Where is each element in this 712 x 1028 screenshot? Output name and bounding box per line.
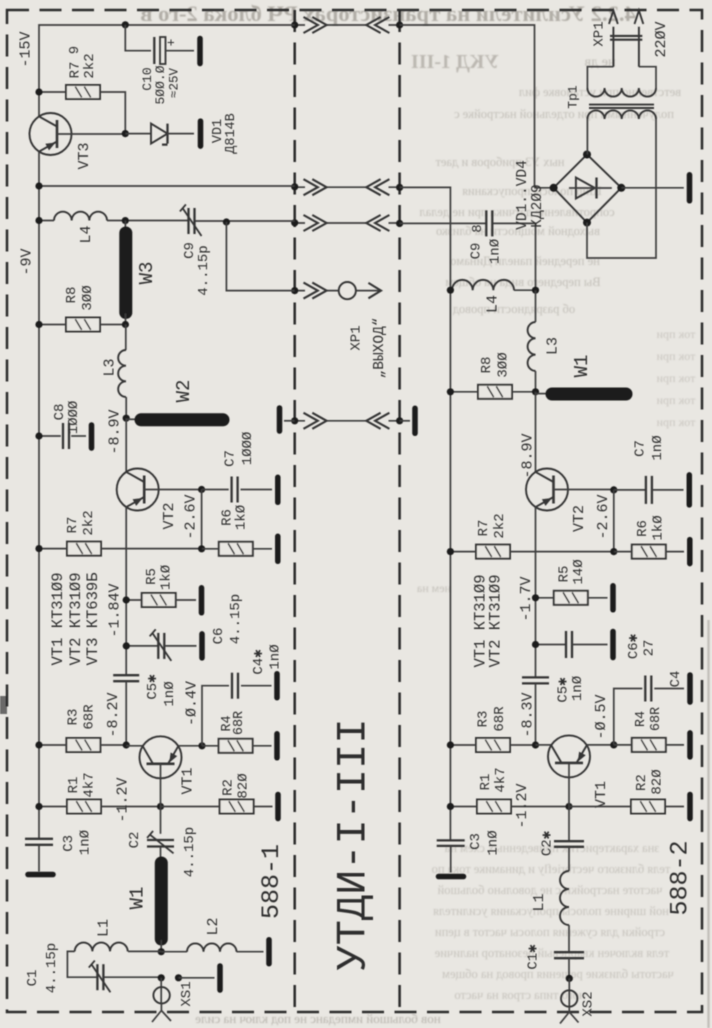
svg-text:R6: R6 bbox=[635, 520, 651, 537]
ground bar R5 bbox=[199, 588, 205, 613]
ground bar C4 (588-2) bbox=[687, 675, 693, 702]
svg-text:не дв: не дв bbox=[584, 55, 615, 70]
junction border dots y=223 bbox=[291, 219, 298, 226]
junction dot VT2 base node bbox=[198, 486, 205, 493]
junction dot R3 rail bbox=[35, 741, 42, 748]
svg-text:C2✱: C2✱ bbox=[540, 830, 556, 856]
connector XP1 plug bars bbox=[610, 36, 642, 40]
wire secondary left to bridge top bbox=[586, 119, 588, 155]
junction dot VT2 base node (588-2) bbox=[610, 486, 617, 493]
svg-text:1nØ: 1nØ bbox=[488, 239, 504, 264]
svg-text:1nØ: 1nØ bbox=[268, 644, 284, 669]
svg-text:C1: C1 bbox=[25, 970, 41, 987]
svg-text:≈25V: ≈25V bbox=[168, 68, 182, 99]
connection arrow left bbox=[366, 413, 389, 429]
resistor R7 mid 2k2 bbox=[67, 542, 101, 556]
svg-text:W2: W2 bbox=[173, 380, 195, 403]
resistor R6 1k0 (588-2) bbox=[632, 545, 666, 559]
wire VT2 collector bbox=[125, 418, 127, 472]
capacitor C3 1n0 bbox=[25, 839, 53, 845]
svg-text:588-2: 588-2 bbox=[666, 840, 695, 915]
capacitor C9 trimmer bbox=[189, 208, 195, 234]
transistor VT3 bbox=[30, 113, 72, 155]
wire -15V feed from bridge bbox=[400, 25, 554, 188]
junction dot VT1 base node (588-2) bbox=[565, 803, 572, 810]
svg-text:4..15p: 4..15p bbox=[196, 245, 212, 295]
capacitor C6 trimmer bbox=[126, 645, 158, 647]
svg-text:УКД 1-ІІІ: УКД 1-ІІІ bbox=[411, 51, 499, 73]
ground bar L2 bbox=[266, 940, 272, 964]
inductor L1 bbox=[75, 943, 128, 952]
svg-text:C7: C7 bbox=[633, 440, 649, 457]
capacitor C5* series (588-2) bbox=[522, 677, 549, 683]
resistor R2 820 (588-2) bbox=[631, 800, 665, 814]
transistor VT1 (588-2) bbox=[548, 735, 590, 777]
svg-text:1kØ: 1kØ bbox=[234, 505, 250, 530]
junction dot R7 rail bbox=[35, 545, 42, 552]
capacitor C2* series (588-2) bbox=[554, 841, 584, 847]
coil W1 coupling bar bbox=[155, 863, 168, 939]
net output line into 588-2 C9 bbox=[400, 223, 536, 290]
wire VT2 emitter rail (588-2) bbox=[535, 507, 537, 677]
wire corridor link bbox=[295, 186, 400, 188]
wire VT2 base to R6 bbox=[201, 490, 203, 549]
svg-text:XP1: XP1 bbox=[591, 21, 607, 46]
svg-text:-2.6V: -2.6V bbox=[595, 494, 612, 539]
svg-text:588-1: 588-1 bbox=[257, 844, 286, 919]
svg-text:68R: 68R bbox=[649, 707, 664, 731]
net tank line y=220.5 with L4 bbox=[39, 220, 295, 223]
svg-text:VT2: VT2 bbox=[161, 502, 178, 529]
resistor R3 68R bbox=[66, 738, 100, 752]
resistor R4 68R (588-2) bbox=[632, 738, 666, 752]
svg-text:5ØØ.Ø: 5ØØ.Ø bbox=[153, 65, 168, 104]
connection arrow right bbox=[304, 179, 327, 195]
svg-text:W1: W1 bbox=[571, 355, 593, 378]
svg-text:-8.9V: -8.9V bbox=[107, 409, 124, 454]
resistor R2 820 bbox=[220, 800, 254, 814]
svg-text:82Ø: 82Ø bbox=[650, 769, 666, 794]
connection arrow left bbox=[366, 17, 389, 33]
wire -9V rail 588-2 bbox=[400, 187, 451, 840]
svg-text:стройки для сужения полосы час: стройки для сужения полосы частот в цепи bbox=[435, 925, 665, 939]
svg-text:УТДИ-І-ІІІ: УТДИ-І-ІІІ bbox=[330, 718, 378, 970]
svg-text:VT1 КТ31Ø9: VT1 КТ31Ø9 bbox=[49, 572, 67, 665]
svg-text:1ØØØ: 1ØØØ bbox=[66, 401, 82, 435]
connector XS1 antenna socket bbox=[160, 978, 162, 1004]
ground bar XS1 shield bbox=[217, 966, 223, 990]
wire corridor link bbox=[295, 222, 400, 224]
svg-text:R7: R7 bbox=[65, 517, 81, 534]
wire VT1 base down bbox=[160, 764, 162, 834]
net input tank L1 C1 bbox=[67, 951, 161, 977]
svg-text:теля близкого честbriefly и ди: теля близкого честbriefly и динамике ток… bbox=[432, 862, 671, 876]
svg-text:2k2: 2k2 bbox=[492, 513, 508, 538]
svg-text:4k7: 4k7 bbox=[82, 772, 98, 797]
junction dot R3 / VT1 collector bbox=[123, 741, 130, 748]
wire -9V rail (VT3 emitter down) bbox=[38, 152, 40, 839]
junction dot R8 rail (588-2) bbox=[447, 388, 454, 395]
ground bar C7 (588-2) bbox=[687, 475, 693, 505]
junction border dots y=25 bbox=[291, 21, 298, 28]
svg-text:C6: C6 bbox=[211, 628, 227, 645]
svg-text:L3: L3 bbox=[545, 337, 562, 355]
svg-text:ток при: ток при bbox=[656, 349, 695, 363]
svg-text:3ØØ: 3ØØ bbox=[496, 352, 512, 377]
svg-text:ных УЗ приборов и дает: ных УЗ приборов и дает bbox=[435, 155, 565, 169]
junction dot VT1 emitter node bbox=[198, 742, 205, 749]
wire XS1 shield to ground bbox=[179, 977, 215, 979]
junction dot W3 bottom bbox=[122, 321, 129, 328]
svg-text:-15V: -15V bbox=[18, 31, 35, 67]
capacitor C4* branch bbox=[202, 686, 229, 746]
svg-text:R1: R1 bbox=[66, 777, 82, 794]
resistor R8 300 bbox=[66, 318, 100, 332]
svg-text:об разрядности провод: об разрядности провод bbox=[452, 302, 575, 316]
resistor R7 upper 2k2 bbox=[66, 85, 100, 99]
wire VT2 base to R6 (588-2) bbox=[613, 490, 615, 552]
connection arrow right bbox=[304, 17, 327, 33]
junction dot R5 node (588-2) bbox=[532, 594, 539, 601]
capacitor C5* series bbox=[113, 675, 139, 681]
svg-text:C5✱: C5✱ bbox=[145, 674, 161, 700]
svg-text:1nØ: 1nØ bbox=[570, 676, 586, 701]
svg-text:теля включен кварцевый резонат: теля включен кварцевый резонатор наличие bbox=[434, 946, 669, 960]
resistor R6 1k0 bbox=[219, 542, 253, 556]
inductor L1 (588-2) bbox=[560, 871, 569, 925]
junction dot VT3 base / VD1 bbox=[122, 130, 129, 137]
ground bar R6 bbox=[275, 536, 281, 561]
svg-text:VT1: VT1 bbox=[180, 767, 197, 794]
capacitor C6* 27 (588-2) bbox=[536, 644, 567, 646]
ground bar R2 bbox=[275, 795, 281, 819]
junction dot R6 node (588-2) bbox=[610, 548, 617, 555]
ground bar R4 (588-2) bbox=[687, 733, 693, 757]
svg-text:частоты близкие решения провод: частоты близкие решения провод на общем bbox=[442, 967, 674, 981]
svg-text:ной ширине полосы пропускания: ной ширине полосы пропускания усилителя bbox=[433, 904, 669, 918]
svg-text:4..15p: 4..15p bbox=[44, 943, 60, 993]
wire VT2 collector (588-2) bbox=[535, 392, 537, 472]
svg-text:68R: 68R bbox=[82, 704, 98, 730]
svg-text:2k2: 2k2 bbox=[82, 53, 98, 78]
svg-text:C4✱: C4✱ bbox=[251, 649, 267, 675]
junction dot VT1 base node bbox=[157, 803, 164, 810]
junction dot R8 rail bbox=[35, 321, 42, 328]
svg-text:-1.2V: -1.2V bbox=[115, 777, 132, 822]
coil W1 coupling bar (588-2) bbox=[536, 393, 552, 395]
inductor L4 bbox=[54, 212, 107, 221]
wire primary to plug bbox=[587, 67, 656, 88]
svg-text:ток при: ток при bbox=[656, 371, 695, 385]
svg-text:Тр1: Тр1 bbox=[566, 85, 581, 109]
transistor VT1 bbox=[140, 736, 182, 778]
frame border corridor left (588-1 right edge) bbox=[293, 10, 296, 1012]
wire VT1 collector bbox=[126, 745, 142, 747]
svg-text:VT2 КТ31Ø9: VT2 КТ31Ø9 bbox=[67, 572, 85, 665]
svg-text:-8.2V: -8.2V bbox=[105, 692, 122, 737]
svg-text:R5: R5 bbox=[556, 566, 572, 583]
transistor VT2 bbox=[117, 469, 159, 511]
junction dot R1 rail bbox=[35, 803, 42, 810]
svg-text:C1✱: C1✱ bbox=[526, 944, 542, 970]
svg-text:9: 9 bbox=[67, 46, 83, 54]
svg-text:1ØØØ: 1ØØØ bbox=[240, 432, 256, 466]
junction dot L4 left rail bbox=[447, 287, 454, 294]
junction dot C6 node (588-2) bbox=[532, 641, 539, 648]
junction dot y186 rail bbox=[35, 182, 42, 189]
svg-text:R1: R1 bbox=[478, 774, 494, 791]
svg-text:4..15p: 4..15p bbox=[182, 827, 198, 877]
svg-text:Д814В: Д814В bbox=[224, 113, 239, 154]
svg-text:R2: R2 bbox=[221, 779, 237, 796]
junction dot L4 right bbox=[532, 287, 539, 294]
junction border dots y=187 bbox=[291, 183, 298, 190]
capacitor C9 1n0 (588-2) bbox=[486, 210, 492, 236]
connector XP1 output plug bbox=[295, 290, 381, 292]
junction dot R7 on -15V rail bbox=[35, 88, 42, 95]
connection arrow right bbox=[304, 215, 327, 231]
resistor R4 68R bbox=[219, 739, 253, 753]
wire -9V feed line y=186 bbox=[39, 185, 295, 187]
svg-text:W3: W3 bbox=[136, 262, 158, 285]
ground bar C6* (588-2) bbox=[610, 632, 616, 658]
ground bar C3 bbox=[28, 872, 53, 878]
svg-text:C6✱: C6✱ bbox=[626, 633, 642, 659]
inductor L2 bbox=[161, 951, 263, 953]
svg-text:ток при: ток при bbox=[656, 393, 695, 407]
ground bar C6 bbox=[199, 634, 205, 658]
svg-text:„ВЫХОД“: „ВЫХОД“ bbox=[372, 318, 388, 379]
frame border corridor right (588-2 left edge) bbox=[398, 10, 401, 1012]
svg-text:XP1: XP1 bbox=[349, 325, 365, 350]
svg-text:-1.84V: -1.84V bbox=[107, 583, 124, 637]
svg-text:-2.6V: -2.6V bbox=[183, 494, 200, 539]
svg-text:W1: W1 bbox=[127, 887, 149, 910]
svg-text:-Ø.4V: -Ø.4V bbox=[184, 681, 201, 726]
resistor R1 4k7 bbox=[67, 800, 101, 814]
wire VT1 collector (588-2) bbox=[536, 744, 552, 746]
svg-text:2k2: 2k2 bbox=[81, 510, 97, 535]
capacitor C2 trimmer series bbox=[147, 840, 174, 847]
svg-text:1nØ: 1nØ bbox=[650, 435, 666, 460]
resistor R5 140 (588-2) bbox=[554, 591, 588, 605]
resistor R8 300 (588-2) bbox=[478, 385, 512, 399]
junction dot bridge left bbox=[550, 184, 558, 192]
resistor R1 4k7 (588-2) bbox=[477, 800, 511, 814]
svg-text:VT3 КТ639Б: VT3 КТ639Б bbox=[84, 572, 102, 665]
svg-text:R3: R3 bbox=[66, 709, 82, 726]
junction dot R6 node bbox=[198, 545, 205, 552]
svg-text:C7: C7 bbox=[223, 450, 239, 467]
svg-text:3ØØ: 3ØØ bbox=[80, 285, 96, 310]
inductor L3 (588-2) bbox=[535, 290, 537, 322]
svg-text:ток при: ток при bbox=[656, 327, 695, 341]
ground bar VD1 bbox=[198, 121, 204, 146]
wire VT1 emitter (588-2) bbox=[587, 744, 614, 746]
junction dot XS2 pin bbox=[566, 975, 573, 982]
transformer Tp1 core bbox=[589, 105, 654, 108]
wire corridor link bbox=[295, 420, 400, 422]
junction dot bridge bottom bbox=[583, 219, 591, 227]
transformer Tp1 secondary winding bbox=[587, 110, 656, 119]
svg-text:68R: 68R bbox=[232, 711, 247, 735]
svg-text:L4: L4 bbox=[485, 295, 502, 313]
svg-text:R4: R4 bbox=[634, 711, 649, 727]
junction dot L3 / W2 / VT2 collector bbox=[123, 415, 130, 422]
junction dot W1 bottom bbox=[158, 948, 165, 955]
svg-text:8: 8 bbox=[470, 224, 486, 232]
capacitor C8 1000 bbox=[39, 435, 61, 437]
svg-text:VT2: VT2 bbox=[571, 505, 588, 532]
capacitor C7 1000 bbox=[202, 489, 229, 491]
inductor L4 (588-2) bbox=[450, 289, 535, 291]
ground bar C10 bbox=[197, 39, 203, 64]
capacitor C7 1n0 (588-2) bbox=[614, 489, 646, 491]
svg-text:1nØ: 1nØ bbox=[78, 830, 94, 855]
svg-text:R2: R2 bbox=[634, 774, 650, 791]
capacitor C1* series (588-2) bbox=[554, 952, 584, 958]
ground bar left of corridor (W2 side) bbox=[277, 408, 283, 431]
wire VT1 base down (588-2) bbox=[568, 763, 570, 841]
junction dot bridge top bbox=[583, 151, 591, 159]
svg-text:R8: R8 bbox=[64, 287, 80, 304]
junction dot VT1 emitter node (588-2) bbox=[610, 741, 617, 748]
svg-text:L2: L2 bbox=[205, 917, 222, 935]
ground bar bridge output bbox=[687, 175, 693, 201]
svg-text:КД2Ø9: КД2Ø9 bbox=[530, 184, 546, 228]
capacitor C3 1n0 (588-2) bbox=[437, 840, 465, 846]
svg-text:82Ø: 82Ø bbox=[236, 773, 252, 798]
svg-text:1nØ: 1nØ bbox=[162, 681, 178, 706]
wire -15V rail bbox=[39, 25, 295, 116]
bridge rectifier VD1..VD4 bbox=[554, 155, 622, 223]
ground bar R4 bbox=[274, 734, 280, 758]
svg-text:C4: C4 bbox=[668, 671, 684, 688]
svg-text:C3: C3 bbox=[468, 833, 484, 850]
ground bar C7 bbox=[275, 477, 281, 502]
svg-text:ток при: ток при bbox=[656, 415, 695, 429]
junction dot R7 rail (588-2) bbox=[447, 548, 454, 555]
connection arrow right bbox=[304, 413, 327, 429]
svg-text:1kØ: 1kØ bbox=[651, 515, 667, 540]
svg-text:1nØ: 1nØ bbox=[486, 830, 502, 855]
svg-text:C2: C2 bbox=[127, 832, 143, 849]
wire bridge plus to chassis bbox=[621, 187, 684, 189]
svg-text:-8.3V: -8.3V bbox=[520, 692, 537, 737]
svg-text:C3: C3 bbox=[61, 835, 77, 852]
svg-text:R3: R3 bbox=[476, 711, 492, 728]
connector XS2 antenna socket bbox=[568, 978, 570, 1006]
coil W3 coupling bar bbox=[124, 221, 126, 232]
ground bar C4* bbox=[274, 674, 280, 698]
junction dot R3 rail (588-2) bbox=[447, 741, 454, 748]
bridge inner diode symbol bbox=[576, 178, 595, 199]
resistor R3 68R (588-2) bbox=[476, 738, 510, 752]
capacitor C4 branch (588-2) bbox=[614, 689, 643, 745]
junction dot C8 rail bbox=[35, 432, 42, 439]
wire corridor link bbox=[295, 24, 400, 26]
capacitor C1 trimmer bbox=[97, 964, 103, 990]
junction dot R1 rail (588-2) bbox=[447, 803, 454, 810]
junction dot R3 / VT1 collector (588-2) bbox=[532, 741, 539, 748]
inductor L3 bbox=[125, 325, 127, 351]
ground bar C3 (588-2) bbox=[439, 874, 464, 880]
junction dot R5 node bbox=[123, 596, 130, 603]
wire bridge bottom to secondary right bbox=[587, 119, 656, 258]
coil W2 coupling bar bbox=[126, 418, 140, 420]
connection arrow left bbox=[366, 179, 389, 195]
junction border dots y=421 bbox=[291, 417, 298, 424]
svg-text:R7: R7 bbox=[476, 520, 492, 537]
svg-text:R8: R8 bbox=[479, 357, 495, 374]
svg-text:VT3: VT3 bbox=[76, 142, 93, 169]
wire XP1 tap bbox=[226, 222, 294, 291]
svg-text:+: + bbox=[164, 38, 179, 46]
svg-text:-9V: -9V bbox=[19, 248, 36, 275]
svg-text:L1: L1 bbox=[96, 919, 113, 937]
svg-text:нем на: нем на bbox=[416, 581, 451, 595]
junction dot C10 tap on -15V rail bbox=[122, 21, 129, 28]
ground bar R6 (588-2) bbox=[687, 540, 693, 564]
junction dot XS1 shield bbox=[175, 974, 182, 981]
svg-text:VD1..VD4: VD1..VD4 bbox=[515, 160, 531, 230]
transistor VT2 (588-2) bbox=[526, 469, 568, 511]
page edge artifacts bbox=[0, 696, 7, 714]
svg-text:14Ø: 14Ø bbox=[571, 559, 587, 584]
transformer Tp1 primary winding bbox=[587, 88, 656, 97]
svg-text:L4: L4 bbox=[78, 225, 95, 243]
svg-text:L1: L1 bbox=[531, 893, 548, 911]
capacitor C10 electrolytic bbox=[154, 37, 165, 64]
junction dot XS1 pin bbox=[158, 974, 165, 981]
wire C10 branch bbox=[125, 25, 151, 51]
wire VT1 emitter bbox=[179, 745, 203, 747]
ground bar R2 (588-2) bbox=[687, 795, 693, 819]
svg-text:4..15p: 4..15p bbox=[228, 594, 244, 644]
svg-text:-Ø.5V: -Ø.5V bbox=[593, 694, 610, 739]
diode VD1 zener bbox=[125, 133, 151, 135]
junction dot C6 node bbox=[123, 642, 130, 649]
svg-text:C9: C9 bbox=[469, 243, 485, 260]
junction dot XP1 tap bbox=[223, 218, 230, 225]
connection arrow left bbox=[366, 215, 389, 231]
svg-text:-8.9V: -8.9V bbox=[520, 433, 537, 478]
svg-text:XS1: XS1 bbox=[179, 981, 195, 1006]
ground bar R5 (588-2) bbox=[610, 586, 616, 610]
ground bar C8 bbox=[89, 425, 95, 448]
svg-text:27: 27 bbox=[642, 640, 658, 657]
svg-text:4k7: 4k7 bbox=[493, 767, 509, 792]
svg-text:4.2.2 Усилители на транзистора: 4.2.2 Усилители на транзисторах РЧ блока… bbox=[140, 1, 635, 26]
junction dot W1 node (588-2) bbox=[532, 388, 539, 395]
resistor R5 1k0 bbox=[142, 593, 176, 607]
svg-text:L3: L3 bbox=[102, 358, 119, 376]
ground bar right of corridor (588-2 side) bbox=[400, 420, 410, 422]
svg-text:VT2 КТ31Ø9: VT2 КТ31Ø9 bbox=[487, 574, 505, 667]
resistor R7 2k2 (588-2) bbox=[476, 545, 510, 559]
wire VT2 emitter rail bbox=[125, 507, 127, 675]
junction dot L4 rail bbox=[35, 217, 42, 224]
svg-text:22ØV: 22ØV bbox=[653, 21, 670, 57]
svg-text:VT1: VT1 bbox=[593, 781, 610, 808]
connector XP1 mains plug pins bbox=[613, 27, 639, 67]
junction dot bridge right bbox=[617, 184, 625, 192]
svg-text:XS2: XS2 bbox=[581, 991, 597, 1016]
svg-text:-1.2V: -1.2V bbox=[514, 783, 531, 828]
junction dot W3 top bbox=[122, 217, 129, 224]
svg-text:частоте настройки с не довольн: частоте настройки с не довольно большой bbox=[437, 883, 662, 897]
svg-text:1kØ: 1kØ bbox=[159, 565, 175, 590]
